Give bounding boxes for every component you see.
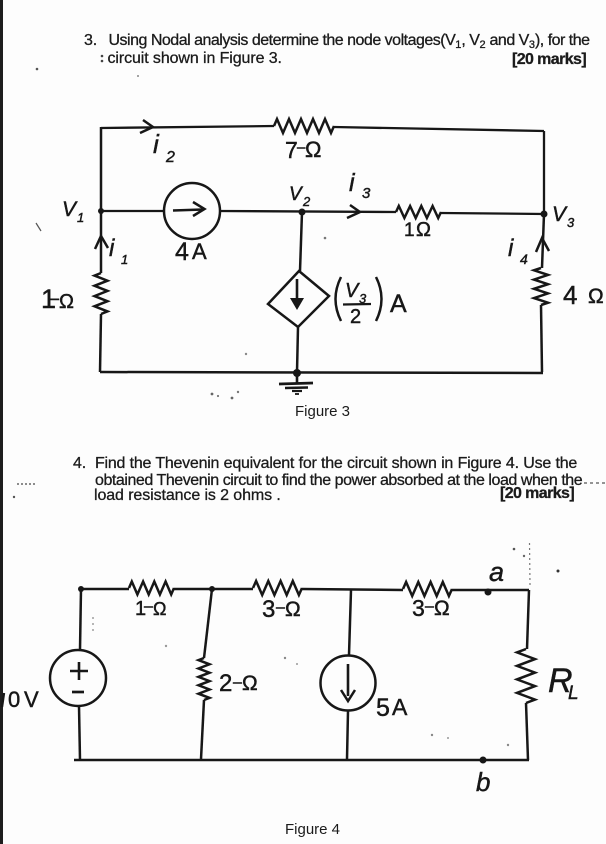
svg-text:L: L: [568, 683, 579, 704]
svg-text:3: 3: [567, 215, 575, 230]
svg-text:i: i: [349, 169, 356, 197]
svg-text:A: A: [192, 239, 207, 264]
svg-text:A: A: [390, 290, 407, 318]
svg-text:Ω: Ω: [434, 597, 450, 620]
svg-text:3: 3: [262, 596, 275, 623]
svg-text:Ω: Ω: [242, 672, 258, 695]
svg-text:Ω: Ω: [153, 599, 166, 619]
svg-text:2: 2: [219, 670, 232, 697]
svg-text:4: 4: [520, 251, 528, 267]
svg-text:Ω: Ω: [285, 598, 301, 621]
svg-text:3: 3: [412, 595, 425, 621]
svg-text:1: 1: [77, 210, 84, 225]
svg-text:–: –: [425, 598, 434, 615]
svg-text:3: 3: [359, 291, 367, 306]
svg-text:4: 4: [563, 280, 577, 310]
svg-text:b: b: [476, 767, 490, 797]
svg-text:i: i: [109, 235, 115, 262]
svg-text:–: –: [144, 598, 153, 615]
svg-text:0: 0: [8, 687, 20, 712]
svg-text:Ω: Ω: [59, 291, 74, 313]
svg-text:5: 5: [376, 694, 390, 722]
svg-text:a: a: [489, 557, 504, 587]
svg-text:V: V: [552, 203, 568, 226]
svg-text:A: A: [392, 694, 408, 720]
svg-text:–: –: [276, 599, 285, 616]
svg-text:Ω: Ω: [588, 285, 604, 308]
svg-text:7: 7: [285, 137, 298, 163]
svg-text:V: V: [289, 184, 304, 205]
svg-text:4: 4: [175, 238, 189, 266]
svg-text:2: 2: [350, 306, 361, 328]
svg-text:1: 1: [404, 220, 415, 241]
svg-text:V: V: [62, 198, 78, 221]
svg-text:2: 2: [302, 194, 311, 209]
svg-text:Ω: Ω: [416, 219, 431, 241]
svg-text:V: V: [345, 280, 360, 302]
svg-text:V: V: [24, 687, 39, 712]
svg-text:2: 2: [165, 149, 175, 166]
svg-text:–: –: [49, 288, 59, 308]
svg-text:i: i: [153, 129, 160, 159]
svg-text:i: i: [508, 235, 514, 262]
svg-text:Ω: Ω: [305, 137, 321, 162]
svg-text:3: 3: [362, 185, 371, 202]
svg-text:1: 1: [121, 252, 128, 267]
svg-text:–: –: [233, 674, 242, 691]
